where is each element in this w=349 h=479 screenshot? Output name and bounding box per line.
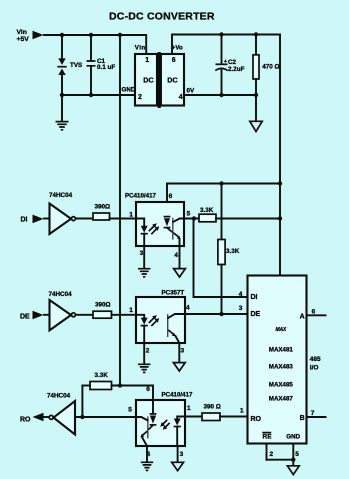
transistor PC357	[167, 314, 169, 337]
svg-text:TVS: TVS	[70, 62, 82, 69]
svg-text:390 Ω: 390 Ω	[204, 404, 221, 411]
svg-text:5: 5	[128, 406, 132, 413]
junction pull-up to +Vo bus	[278, 216, 282, 220]
svg-text:6: 6	[146, 386, 150, 393]
svg-text:0.1 uF: 0.1 uF	[97, 64, 115, 71]
wire GND rail to DC-DC pin2	[62, 94, 135, 96]
svg-text:Vin: Vin	[135, 45, 146, 52]
svg-text:3.3K: 3.3K	[95, 372, 109, 379]
svg-text:4: 4	[179, 94, 183, 101]
wire +5V top rail	[44, 35, 146, 54]
svg-text:3.3K: 3.3K	[226, 248, 240, 255]
transistor DI opto	[172, 218, 174, 240]
resistor 470 ohm	[255, 35, 257, 55]
wire RE-GND tie	[267, 460, 294, 466]
ground isolated triangle MAX485	[287, 466, 299, 475]
svg-text:3: 3	[140, 250, 144, 257]
svg-text:3: 3	[181, 348, 185, 355]
svg-text:1: 1	[145, 57, 149, 64]
LED inside PC357	[136, 315, 144, 318]
svg-text:PC410/417: PC410/417	[162, 391, 194, 398]
svg-text:PC357T: PC357T	[162, 290, 185, 297]
svg-text:+5V: +5V	[17, 36, 30, 43]
svg-text:RE: RE	[263, 434, 273, 441]
svg-text:390Ω: 390Ω	[95, 204, 111, 211]
svg-text:GND: GND	[286, 434, 300, 441]
light arrows PC357	[149, 318, 157, 326]
light arrows DI opto	[149, 226, 157, 234]
junction RE-GND tie	[291, 458, 295, 462]
svg-text:3: 3	[239, 305, 243, 312]
svg-text:2: 2	[270, 451, 274, 458]
svg-text:74HC04: 74HC04	[49, 291, 73, 298]
svg-text:4: 4	[239, 291, 243, 298]
svg-text:7: 7	[311, 410, 315, 417]
capacitor C1 0.1uF	[90, 35, 92, 61]
svg-text:DE: DE	[251, 311, 261, 318]
svg-text:DE: DE	[20, 313, 30, 320]
capacitor C2 2.2uF	[221, 35, 223, 64]
ground earth under TVS	[61, 95, 63, 121]
junction C1/TVS on +5V rail	[89, 33, 93, 37]
svg-text:4: 4	[186, 305, 190, 312]
svg-text:1: 1	[240, 408, 244, 415]
junction DE wire to 3.3K pull-up	[219, 312, 223, 316]
input arrow Vin	[33, 31, 44, 40]
svg-text:74HC04: 74HC04	[47, 393, 71, 400]
svg-text:6: 6	[169, 193, 173, 200]
svg-text:RO: RO	[251, 416, 262, 423]
junction +5V bus tap	[118, 33, 122, 37]
svg-text:1: 1	[129, 307, 133, 314]
photodiode RO opto	[152, 400, 154, 414]
svg-text:DC-DC CONVERTER: DC-DC CONVERTER	[109, 11, 215, 23]
junction C2 to +Vo rail	[219, 32, 223, 36]
svg-text:+Vo: +Vo	[172, 45, 183, 52]
resistor 390 ohm DI	[93, 213, 110, 220]
resistor 3.3K DI pullup	[199, 214, 216, 222]
svg-text:2: 2	[146, 348, 150, 355]
photodiode DI opto	[164, 216, 171, 218]
wire DI signal down to MAX485	[194, 219, 248, 298]
wire 0V rail	[184, 94, 256, 96]
svg-text:DI: DI	[251, 294, 258, 301]
pin 6 stub DI opto	[166, 184, 168, 203]
svg-text:3.3K: 3.3K	[200, 207, 214, 214]
junction +5V bus to RO pull-up	[118, 383, 122, 387]
DC-DC converter primary box	[135, 54, 157, 106]
wire +Vo rail and right bus x=280	[172, 35, 280, 276]
junction Vcc wire to +Vo bus	[278, 181, 282, 185]
wire +5V vertical bus x=120	[119, 35, 121, 386]
resistor 3.3K vertical DE pullup	[221, 184, 223, 240]
junction RO wire to pull-up	[80, 415, 84, 419]
svg-text:1: 1	[187, 405, 191, 412]
junction 470 ohm to 0V rail	[254, 93, 258, 97]
resistor 390 ohm DE	[93, 311, 112, 318]
svg-text:3: 3	[180, 451, 184, 458]
diode TVS	[61, 35, 63, 59]
svg-text:5: 5	[187, 211, 191, 218]
junction DI signal tap at pin5	[192, 216, 196, 220]
ground isolated triangle under 470	[250, 121, 262, 131]
svg-text:6: 6	[172, 57, 176, 64]
svg-text:B: B	[300, 415, 305, 422]
svg-text:2: 2	[138, 94, 142, 101]
svg-text:1: 1	[129, 211, 133, 218]
LED RO opto	[177, 417, 185, 419]
svg-text:470 Ω: 470 Ω	[262, 63, 279, 70]
svg-text:RO: RO	[20, 417, 31, 424]
transistor RO opto	[147, 416, 149, 438]
svg-text:A: A	[300, 314, 305, 321]
wire DE signal to MAX485	[185, 313, 248, 315]
svg-text:390Ω: 390Ω	[95, 301, 111, 308]
junction 470 ohm to +Vo rail	[254, 32, 258, 36]
svg-text:GND: GND	[122, 86, 136, 93]
transformer isolation bar	[158, 52, 161, 108]
junction TVS to GND rail	[60, 93, 64, 97]
junction C1 to GND rail	[89, 93, 93, 97]
node junction dots on +5V rail	[60, 33, 64, 37]
svg-text:74HC04: 74HC04	[49, 192, 73, 199]
IC MAX485 box	[248, 276, 307, 444]
svg-text:DC: DC	[143, 76, 153, 85]
svg-text:485: 485	[310, 356, 321, 363]
svg-text:MAX: MAX	[276, 327, 287, 333]
svg-text:MAX483: MAX483	[269, 363, 294, 370]
svg-text:I/O: I/O	[310, 364, 319, 371]
svg-text:2.2uF: 2.2uF	[228, 66, 245, 73]
svg-text:MAX487: MAX487	[269, 395, 294, 402]
svg-text:PC410/417: PC410/417	[125, 193, 157, 200]
svg-text:MAX481: MAX481	[269, 346, 294, 353]
DC-DC converter secondary box	[161, 54, 184, 106]
LED inside DI opto	[136, 219, 144, 226]
resistor 390 ohm RO	[202, 413, 220, 421]
svg-text:4: 4	[174, 252, 178, 259]
svg-text:+: +	[224, 59, 227, 65]
svg-text:0V: 0V	[187, 87, 196, 94]
wire pin6 to +Vo bus	[167, 183, 280, 185]
svg-text:DI: DI	[21, 217, 28, 224]
svg-text:MAX485: MAX485	[269, 382, 294, 389]
light arrows RO opto	[162, 420, 170, 428]
svg-text:Vin: Vin	[17, 29, 27, 36]
svg-text:5: 5	[295, 451, 299, 458]
svg-text:DC: DC	[167, 76, 177, 85]
